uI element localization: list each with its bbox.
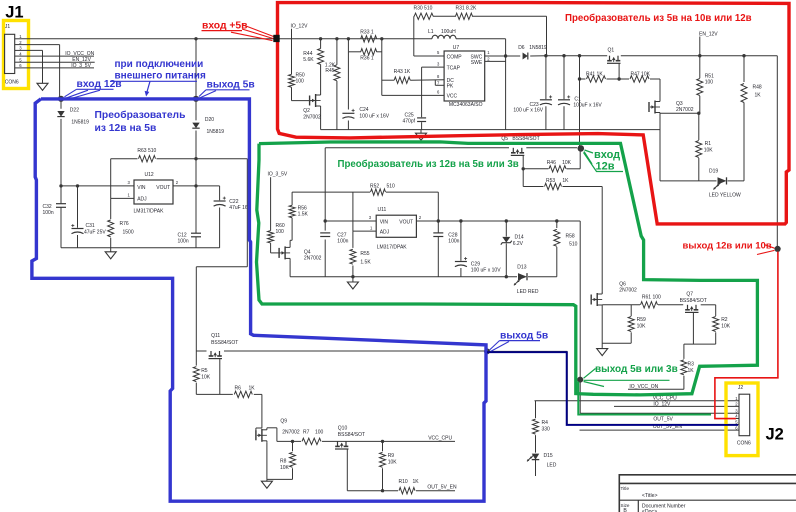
wire TCAP to C25: [421, 67, 423, 117]
svg-text:B: B: [623, 508, 627, 512]
svg-text:2N7002: 2N7002: [676, 107, 694, 113]
svg-text:LED RED: LED RED: [517, 289, 539, 295]
svg-text:OUT_5V: OUT_5V: [653, 416, 673, 422]
svg-text:R59: R59: [637, 317, 646, 323]
svg-text:330: 330: [542, 426, 551, 432]
svg-text:100 uF x 16V: 100 uF x 16V: [513, 108, 543, 114]
svg-text:вход 12в: вход 12в: [77, 79, 122, 90]
red underline: [202, 30, 243, 32]
svg-text:1500: 1500: [123, 230, 134, 236]
wire R53 row: [523, 186, 543, 188]
svg-text:10K: 10K: [721, 323, 731, 329]
svg-text:12в: 12в: [596, 161, 615, 173]
wire U12 VOUT row: [173, 185, 220, 187]
svg-text:VOUT: VOUT: [399, 220, 413, 226]
wire boost ground rail: [321, 129, 660, 131]
wire Q10 gate lead: [346, 449, 348, 491]
capacitor C1 100uF x 16V: [563, 56, 565, 99]
svg-text:R6: R6: [235, 386, 242, 392]
svg-text:R8: R8: [280, 458, 287, 464]
svg-text:47uF 25V: 47uF 25V: [84, 229, 106, 235]
svg-text:TCAP: TCAP: [447, 65, 461, 71]
wire R2/R3 row: [684, 343, 716, 345]
svg-text:C24: C24: [359, 107, 368, 113]
wire U12 ADJ row: [111, 197, 134, 199]
svg-text:BSS84/SOT: BSS84/SOT: [512, 136, 539, 142]
wire J1 pin4 IO_VCC_ON: [22, 55, 95, 57]
wire +5V rail segment: [361, 38, 432, 40]
navy overlay OUT_5V route: [487, 352, 738, 425]
svg-text:510: 510: [387, 183, 396, 189]
wire VIN row: [325, 220, 376, 222]
blue arrows output 5v: [199, 90, 206, 97]
svg-text:1K: 1K: [562, 178, 569, 184]
svg-text:100 uF x 10V: 100 uF x 10V: [471, 268, 501, 274]
svg-text:выход 5в: выход 5в: [500, 330, 548, 341]
J1 pin 6 stub: [15, 67, 22, 69]
svg-text:5.6K: 5.6K: [303, 57, 314, 63]
blue arrows output 5v bottom: [490, 341, 500, 350]
wire Q9 source down: [266, 443, 268, 480]
svg-text:Title: Title: [621, 486, 630, 491]
resistor R53 1K: [545, 183, 562, 189]
wire 12V output drop: [776, 56, 778, 247]
wire R63 row: [111, 158, 138, 160]
svg-text:R7: R7: [303, 429, 310, 435]
wire Q5 row: [325, 147, 509, 149]
diode D13 LED RED: [518, 273, 527, 280]
blue underline input 12v: [77, 88, 114, 90]
red route to J2 pin4: [715, 252, 778, 419]
resistor R41 1K: [587, 76, 606, 82]
svg-text:VCC_CPU: VCC_CPU: [653, 395, 677, 401]
blue underline output 5v: [206, 89, 250, 91]
svg-text:L1: L1: [428, 29, 434, 35]
wire Q9 drain to row: [267, 427, 277, 429]
node R51 top: [698, 54, 701, 57]
blue underline output 5v bottom: [500, 340, 541, 342]
wire D6 to 12V rail: [530, 55, 546, 57]
red arrows to 12V out node: [764, 245, 775, 249]
svg-text:10K: 10K: [201, 374, 211, 380]
diode D15 LED: [532, 454, 540, 460]
wire ADJ row: [353, 230, 376, 232]
transistor Q11 BSS84/SOT: [210, 351, 212, 356]
svg-text:внешнего питания: внешнего питания: [115, 71, 206, 82]
wire R50 to Q2 gate: [291, 87, 293, 100]
svg-text:EN_12V: EN_12V: [699, 31, 718, 37]
svg-text:2N7002: 2N7002: [304, 255, 322, 261]
svg-text:D13: D13: [517, 264, 526, 270]
wire J1 pin3 to ground: [22, 49, 43, 51]
svg-text:VIN: VIN: [380, 220, 389, 226]
capacitor C27 100n: [320, 232, 330, 234]
resistor R10 1K: [399, 488, 415, 494]
svg-text:из 12в на 5в: из 12в на 5в: [95, 123, 157, 134]
wire U12 VIN row: [61, 185, 134, 187]
wire R5/R6 row: [196, 393, 233, 395]
svg-text:10K: 10K: [704, 148, 714, 154]
svg-text:10K: 10K: [637, 323, 647, 329]
node sense right junction: [380, 37, 383, 40]
transistor Q6 2N7002: [590, 295, 592, 305]
svg-text:R63 510: R63 510: [137, 148, 156, 154]
wire SWC pin1 to D6: [485, 55, 521, 57]
svg-text:2N7002: 2N7002: [282, 429, 300, 435]
wire Q2 source to ground rail: [320, 108, 322, 130]
resistor R61 100: [641, 302, 658, 308]
ground U11 block: [352, 277, 354, 282]
svg-text:LM317/DPAK: LM317/DPAK: [134, 208, 165, 214]
ground Q6: [601, 347, 603, 348]
svg-text:Q5: Q5: [501, 136, 508, 142]
wire 5V feed drop to lower block: [246, 159, 248, 267]
svg-text:PK: PK: [447, 83, 454, 89]
svg-text:1K: 1K: [688, 368, 695, 374]
svg-text:ADJ: ADJ: [380, 230, 390, 236]
red arrow lines to +5V node: [242, 25, 274, 37]
svg-text:R76: R76: [120, 221, 129, 227]
wire 12V rail: [547, 55, 608, 57]
wire ADJ vertical R55: [352, 192, 354, 231]
svg-text:R58: R58: [566, 233, 575, 239]
svg-text:Q2: Q2: [303, 108, 310, 114]
node 12V output junction: [775, 246, 781, 252]
svg-text:C31: C31: [86, 223, 95, 229]
svg-text:1N5819: 1N5819: [207, 129, 225, 135]
op-amp U12 LM317 box: [134, 180, 173, 204]
svg-text:1K: 1K: [755, 93, 762, 99]
svg-text:100: 100: [276, 229, 285, 235]
wire feedback row: [413, 15, 416, 17]
svg-text:R45: R45: [325, 68, 334, 74]
svg-text:Q1: Q1: [608, 47, 615, 53]
svg-text:VOUT: VOUT: [156, 185, 170, 191]
wire Q7 gate lead: [692, 312, 694, 344]
svg-text:IO_3_5V: IO_3_5V: [268, 172, 288, 178]
svg-text:100: 100: [296, 79, 305, 85]
resistor R36 1: [361, 49, 377, 55]
node sense left junction: [347, 37, 350, 40]
diode D6 1N5819: [523, 53, 528, 60]
wire C24 vertical: [347, 52, 349, 110]
svg-text:выход 5в или 3в: выход 5в или 3в: [595, 364, 678, 375]
transistor Q3 2N7002: [648, 102, 650, 112]
svg-text:R4: R4: [542, 420, 549, 426]
svg-text:Q11: Q11: [211, 333, 220, 339]
svg-text:C25: C25: [405, 112, 414, 118]
svg-text:100n: 100n: [178, 238, 189, 244]
svg-text:вход +5в: вход +5в: [202, 20, 247, 31]
wire 12V drop to VIN: [324, 148, 326, 231]
svg-text:Q10: Q10: [338, 426, 348, 432]
wire ADJ top row: [292, 191, 370, 193]
svg-text:CON6: CON6: [5, 80, 19, 86]
resistor R45 1.2K: [334, 65, 340, 81]
node boost-output to Q5 vertical: [578, 54, 581, 57]
node 12V input dot: [578, 145, 585, 152]
connector J1 body CON6: [5, 34, 15, 73]
transistor Q1 BSS84 (high-side switch): [609, 56, 611, 61]
resistor R1 10K: [698, 113, 700, 140]
svg-text:IO_VCC_ON: IO_VCC_ON: [65, 51, 94, 57]
wire TCAP pin3: [422, 66, 445, 68]
svg-text:J1: J1: [5, 24, 10, 30]
wire 12v node row: [61, 98, 196, 100]
svg-text:R10: R10: [399, 479, 408, 485]
transistor Q4 2N7002: [278, 248, 280, 258]
wire R45 to ground rail: [336, 81, 338, 130]
wire J2 pin4 stub: [715, 418, 739, 420]
wire COMP pin5: [414, 55, 444, 57]
op-amp U7 MC34063A box: [444, 51, 485, 101]
wire OUT_5V_EN to J2 pin6: [580, 429, 740, 431]
diode D14 zener 6.2V: [505, 221, 507, 237]
svg-text:1K: 1K: [413, 479, 420, 485]
svg-text:IO_3_5V: IO_3_5V: [71, 63, 91, 69]
resistor R4 330: [535, 401, 537, 418]
blue arrow ext power: [147, 81, 151, 93]
wire Q4 source to rail: [289, 260, 291, 276]
svg-text:R46: R46: [547, 160, 556, 166]
wire Q3 source row to R51: [660, 112, 699, 114]
svg-text:D6: D6: [518, 45, 525, 51]
wire VOUT row: [416, 220, 580, 222]
J1 pin 5 stub: [15, 61, 22, 63]
wire U12 bottom rail: [61, 247, 220, 249]
op-amp U11 LM317 box: [376, 215, 416, 237]
wire IO_12V to J2 pin2: [614, 405, 739, 407]
svg-text:BSS84/SOT: BSS84/SOT: [680, 298, 707, 304]
ground U12 block: [110, 248, 112, 252]
green overlay to J2 pin3: [578, 382, 711, 415]
capacitor C32 100n: [60, 186, 62, 204]
svg-text:SWE: SWE: [471, 60, 483, 66]
resistor R3 1K: [683, 344, 685, 359]
transistor Q2 2N7002: [309, 96, 311, 106]
resistor R50 100: [289, 74, 295, 87]
svg-text:U11: U11: [378, 207, 387, 213]
wire IO_12V to R50: [291, 29, 293, 75]
svg-text:R47 10K: R47 10K: [631, 71, 651, 77]
wire Q11 gate lead: [219, 359, 221, 395]
capacitor C12 100n: [195, 186, 197, 233]
wire Q3 source down: [659, 114, 661, 181]
connector J2 yellow highlight box: [726, 383, 758, 456]
node 5V output dot: [484, 348, 490, 354]
wire VOUT output drop: [579, 221, 581, 413]
wire J1 pin1 +5V rail: [22, 38, 362, 40]
wire R63 left drop to ADJ: [110, 159, 112, 199]
resistor R55 1.5K: [352, 231, 354, 248]
svg-text:D20: D20: [205, 117, 214, 123]
svg-text:U7: U7: [453, 45, 460, 51]
svg-text:1K: 1K: [249, 386, 256, 392]
svg-text:LM317/DPAK: LM317/DPAK: [377, 244, 408, 250]
resistor R30 510: [414, 13, 433, 19]
svg-text:100: 100: [705, 79, 714, 85]
J1 pin 1 stub: [15, 38, 22, 40]
svg-text:при подключении: при подключении: [115, 59, 204, 70]
transistor Q10 BSS84/SOT: [337, 441, 339, 446]
wire Q5 gate lead: [522, 155, 524, 186]
green arrows input 12v: [585, 150, 594, 153]
svg-text:J2: J2: [766, 426, 784, 444]
svg-text:Преобразователь из 5в на 10в и: Преобразователь из 5в на 10в или 12в: [565, 13, 752, 24]
svg-text:10K: 10K: [388, 459, 398, 465]
wire rail to R44: [320, 39, 322, 49]
wire row to Q3 drain: [659, 79, 661, 100]
svg-text:R36 1: R36 1: [360, 55, 374, 61]
wire L1 right vertical: [505, 39, 507, 130]
svg-text:Преобразователь: Преобразователь: [95, 109, 186, 121]
wire LED yellow row: [660, 180, 717, 182]
transistor Q9 2N7002: [255, 430, 257, 440]
node +5V junction blob: [273, 35, 279, 42]
connector J1 yellow highlight box: [4, 21, 29, 89]
svg-text:R9: R9: [388, 453, 395, 459]
resistor R47 10K: [630, 76, 649, 82]
J1 pin 4 stub: [15, 55, 22, 57]
node 5V/3V output dot: [577, 377, 583, 383]
inductor L1 100uH: [432, 35, 456, 39]
resistor R36 1 row: [348, 51, 361, 53]
svg-text:U12: U12: [145, 172, 154, 178]
wire R6 to Q9 gate: [261, 394, 263, 428]
resistor R52 510: [371, 189, 386, 195]
svg-text:выход 12в или 10в: выход 12в или 10в: [683, 240, 772, 251]
svg-text:D22: D22: [70, 108, 79, 114]
svg-text:LED YELLOW: LED YELLOW: [709, 193, 741, 199]
resistor R2 10K: [715, 305, 717, 316]
capacitor C29 100uF x 10V: [460, 221, 462, 261]
wire R60 to Q4 gate: [270, 243, 272, 253]
svg-text:MC34063A/SO: MC34063A/SO: [449, 102, 483, 108]
diode D19 LED YELLOW: [718, 177, 727, 184]
green outline 12v-to-5v3v block: [257, 142, 758, 395]
resistor R48 1K: [743, 56, 745, 82]
svg-text:COMP: COMP: [447, 54, 463, 60]
wire rail to 5V output node: [195, 39, 197, 99]
svg-text:2N7002: 2N7002: [619, 287, 637, 293]
svg-text:J2: J2: [738, 385, 744, 391]
resistor R43 1K: [394, 77, 410, 83]
wire J1 pin6 IO_3_5V: [22, 67, 95, 69]
wire Q9 source row: [267, 478, 293, 480]
wire LDO bottom rail: [290, 276, 517, 278]
wire PK pin7 tie: [434, 80, 436, 86]
resistor R6 1K: [234, 391, 252, 397]
wire R41-R47 row: [580, 78, 586, 80]
title block frame: [619, 475, 796, 512]
svg-text:100uF x 16V: 100uF x 16V: [573, 102, 602, 108]
svg-text:R61 100: R61 100: [642, 295, 661, 301]
ground J1 pin3: [37, 83, 48, 90]
diode D22 1N5819: [60, 99, 62, 109]
svg-text:100n: 100n: [337, 239, 348, 245]
svg-text:VCC_CPU: VCC_CPU: [428, 435, 452, 441]
svg-text:510: 510: [569, 242, 578, 248]
svg-text:2N7002: 2N7002: [303, 115, 321, 121]
svg-text:BSS84/SOT: BSS84/SOT: [211, 340, 238, 346]
node 12V input blob: [58, 96, 64, 102]
svg-text:R33 1: R33 1: [360, 29, 374, 35]
capacitor C23 100uF x 16V: [545, 56, 547, 99]
svg-text:100uH: 100uH: [441, 29, 456, 35]
wire R43 row / DC pin8: [382, 79, 394, 81]
wire IO_VCC_ON row: [628, 388, 684, 390]
resistor R31 8.2K: [456, 13, 473, 19]
resistor R63 510: [139, 156, 156, 162]
svg-text:1.5K: 1.5K: [360, 260, 371, 266]
svg-text:VIN: VIN: [137, 185, 146, 191]
svg-text:100 uF x 16V: 100 uF x 16V: [359, 114, 389, 120]
J1 pin 2 stub: [15, 44, 22, 46]
wire Q1 gate to divider: [618, 63, 620, 79]
svg-text:100: 100: [315, 429, 324, 435]
wire OUT_5V_EN row: [347, 490, 398, 492]
svg-text:LED: LED: [547, 462, 557, 468]
resistor R59 10K: [630, 305, 632, 316]
green arrows output 5v3v: [584, 369, 596, 379]
svg-text:1N5819: 1N5819: [529, 45, 547, 51]
wire R53 to Q6 drain: [601, 187, 603, 293]
svg-text:R52: R52: [370, 183, 379, 189]
resistor R76 1500: [110, 198, 112, 219]
node D14 top: [505, 219, 508, 222]
wire 5V/3V output to J2 pin3: [580, 412, 739, 414]
wire VCC_CPU to J2 pin1: [535, 400, 740, 402]
resistor R51 100: [699, 56, 701, 78]
svg-text:вход: вход: [594, 149, 620, 161]
svg-text:R2: R2: [721, 317, 728, 323]
svg-text:R5: R5: [201, 368, 208, 374]
svg-text:R30 510: R30 510: [414, 6, 433, 12]
svg-text:1.5K: 1.5K: [298, 212, 309, 218]
transistor Q7 BSS84/SOT: [687, 305, 689, 310]
resistor R44 5.6K: [318, 49, 324, 65]
wire R59 ground row: [602, 342, 631, 344]
wire J1 pin5 EN_12V: [22, 61, 95, 63]
connector J2 body: [739, 394, 750, 436]
J1 pin 3 stub: [15, 49, 22, 51]
blue outline 12v-to-5v block: [32, 99, 486, 501]
svg-text:R55: R55: [360, 251, 369, 257]
svg-text:100n: 100n: [43, 210, 54, 216]
resistor R9 10K: [382, 441, 384, 451]
capacitor C31 47uF 25V: [77, 186, 79, 228]
svg-text:BSS84/SOT: BSS84/SOT: [338, 432, 365, 438]
wire IO_3_5V to R60: [270, 177, 272, 230]
wire SWE pin2: [485, 60, 506, 62]
resistor R60 100: [268, 231, 274, 244]
svg-text:1N5819: 1N5819: [71, 119, 89, 125]
wire Q6 gate/R61 row: [602, 304, 640, 306]
svg-text:470pf: 470pf: [403, 119, 416, 125]
node C29 junction: [459, 219, 462, 222]
resistor R56 1.5K: [291, 192, 293, 205]
capacitor C22 47uF 16V: [219, 186, 221, 200]
transistor Q5 BSS84/SOT: [512, 148, 514, 153]
svg-text:R53: R53: [546, 178, 555, 184]
svg-text:R31 8.2K: R31 8.2K: [456, 6, 478, 12]
resistor R8 10K: [292, 441, 294, 451]
svg-text:R43 1K: R43 1K: [394, 69, 411, 75]
svg-text:R48: R48: [753, 85, 762, 91]
wire R44 to Q2 drain: [320, 65, 322, 94]
blue arrows input 12v: [65, 89, 77, 97]
wire R46 row: [523, 168, 548, 170]
